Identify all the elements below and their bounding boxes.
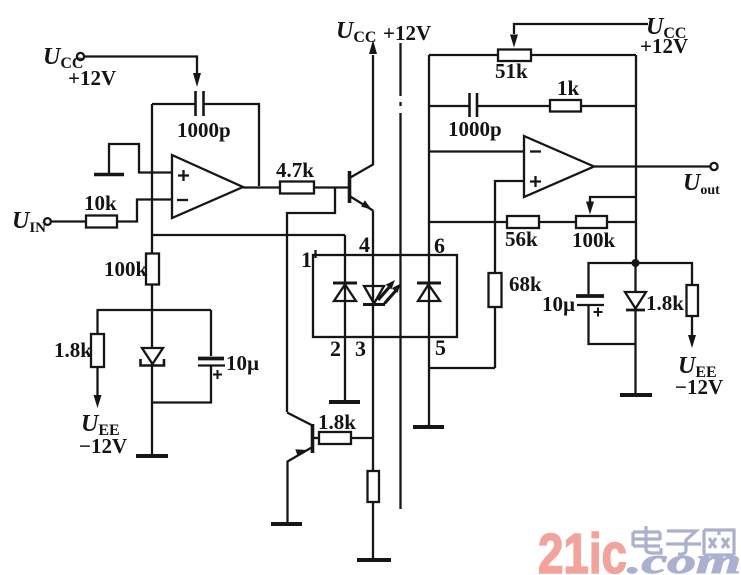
- wire right rail: [635, 55, 637, 263]
- RP1 wiper to Ucc: [514, 24, 648, 34]
- svg-text:2: 2: [330, 336, 341, 361]
- wire dot to C4 branch: [589, 263, 637, 294]
- wire RC network top row: [97, 309, 212, 311]
- arrowhead RP1 wiper: [510, 35, 518, 48]
- svg-text:10k: 10k: [84, 191, 117, 215]
- wire G1 to noninverting input: [109, 144, 172, 173]
- transistor Q1 base bar: [348, 171, 352, 203]
- wire R1 to inverting input: [117, 200, 172, 222]
- arrowhead Q2 emitter: [295, 449, 307, 456]
- wire C1 left plate to inverting column: [152, 103, 195, 105]
- wire RP1 to right rail: [531, 54, 636, 56]
- svg-text:100k: 100k: [104, 257, 148, 281]
- arrowhead down Uee right: [688, 335, 696, 348]
- svg-text:−12V: −12V: [675, 375, 723, 399]
- wire to R3: [96, 310, 98, 334]
- svg-text:4.7k: 4.7k: [276, 158, 314, 182]
- capacitor C4 10u: [576, 294, 604, 298]
- opto diode left triangle: [334, 285, 356, 302]
- wire R5 to right rail: [581, 105, 636, 107]
- svg-text:56k: 56k: [505, 227, 538, 251]
- wire feedback row left: [429, 105, 469, 107]
- plus mark C4: [594, 308, 603, 317]
- resistor R9 1.8k bottom: [319, 432, 351, 444]
- wire inverting row U2: [429, 150, 524, 152]
- svg-text:21ic: 21ic: [538, 522, 627, 575]
- transistor Q2 collector diagonal: [287, 413, 313, 426]
- svg-text:1000p: 1000p: [177, 118, 231, 142]
- svg-text:1.8k: 1.8k: [318, 410, 356, 434]
- svg-text:5: 5: [435, 335, 446, 360]
- wire diode column right: [634, 263, 636, 395]
- wire Ucc left to C1 node: [84, 57, 197, 77]
- pin 1 tick: [314, 250, 316, 258]
- resistor R1 10k: [86, 216, 117, 228]
- resistor R10: [368, 471, 380, 502]
- resistor R5 1k: [550, 100, 581, 112]
- wire emitter / opto LED column down to ground: [372, 211, 374, 561]
- svg-text:1k: 1k: [557, 76, 580, 100]
- opto diode right triangle: [418, 285, 440, 302]
- arrowhead down Uee left: [94, 395, 102, 408]
- op-amp U1 plus sign: [178, 170, 189, 181]
- ground G3 bar: [329, 400, 360, 404]
- wire zener column: [151, 310, 153, 456]
- ground G7 bar: [620, 393, 652, 397]
- svg-text:Uout: Uout: [683, 170, 720, 198]
- wire inverting node column x152: [151, 104, 153, 310]
- arrowhead up Ucc middle: [369, 40, 377, 54]
- wire opto left diode column to ground: [344, 235, 346, 402]
- svg-text:10µ: 10µ: [226, 351, 259, 375]
- capacitor C3 1000p: [468, 93, 471, 117]
- wire R4 to Q1 base: [314, 186, 348, 188]
- op-amp U2 plus sign: [530, 176, 541, 187]
- transistor Q1 emitter: [350, 196, 374, 211]
- wire C2 column: [210, 310, 212, 356]
- wire row 56k 100k: [429, 221, 636, 223]
- svg-text:100k: 100k: [572, 228, 616, 252]
- svg-text:3: 3: [355, 336, 366, 361]
- potentiometer RP2 100k: [576, 216, 607, 228]
- svg-text:UCC: UCC: [336, 18, 376, 46]
- op-amp U1 minus sign: [177, 199, 188, 201]
- resistor R7 56k: [507, 216, 539, 228]
- ground G1 bar: [94, 173, 124, 177]
- arrowhead down to C1 node: [193, 73, 201, 87]
- svg-text:UIN: UIN: [12, 208, 46, 236]
- resistor R3 1.8k: [91, 334, 104, 367]
- transistor Q2 base bar: [311, 424, 315, 453]
- resistor R6 68k: [489, 273, 502, 307]
- op-amp U2 minus sign: [530, 150, 541, 152]
- junction dot right rail: [632, 259, 640, 267]
- svg-text:68k: 68k: [509, 272, 542, 296]
- wire U2 output row: [594, 165, 710, 167]
- potentiometer RP1 51k: [498, 50, 531, 62]
- wire R9 to LED column: [351, 437, 373, 439]
- wire C4 bottom to diode column: [589, 305, 636, 344]
- arrowhead Q1 emitter: [361, 200, 371, 209]
- transistor Q1 collector to Ucc: [350, 55, 374, 178]
- wire R3 to Uee: [96, 367, 98, 398]
- wire U1 output to R4: [243, 186, 280, 188]
- resistor R4 4.7k: [280, 182, 314, 194]
- RP2 wiper to right rail: [590, 197, 636, 204]
- wire pin5 junction to 68k bottom: [429, 367, 496, 369]
- terminal Ucc left: [77, 53, 84, 60]
- wire Uin to R1: [51, 220, 86, 222]
- op-amp U1: [172, 155, 243, 218]
- transistor Q2 emitter: [288, 447, 313, 524]
- svg-text:4: 4: [359, 232, 370, 257]
- zener diode VD1: [142, 348, 163, 364]
- op-amp U2: [524, 136, 594, 197]
- ground G2 bar: [136, 454, 168, 458]
- terminal Uout: [710, 163, 717, 170]
- resistor R8 1.8k right: [687, 285, 699, 316]
- opto diode left bar: [333, 282, 357, 285]
- wire dot to R8: [636, 263, 692, 285]
- diode VD2: [625, 292, 646, 309]
- logo dianzi wang: [633, 526, 734, 555]
- opto LED bar: [363, 303, 385, 306]
- svg-text:−12V: −12V: [79, 434, 127, 458]
- capacitor C2 10u: [198, 357, 224, 361]
- wire noninverting drop through 68k: [495, 181, 524, 368]
- svg-text:1000p: 1000p: [448, 117, 502, 141]
- wire C3 to R5: [478, 105, 551, 107]
- wire right-section left rail pin6 pin5 column: [428, 55, 430, 427]
- svg-text:+12V: +12V: [383, 21, 431, 45]
- svg-text:6: 6: [434, 233, 445, 258]
- resistor R2 100k: [146, 254, 159, 285]
- terminal Uin: [44, 218, 51, 225]
- ground G4 bar: [271, 522, 302, 526]
- ground G6 bar: [357, 558, 391, 562]
- wire C1 right plate to output column: [204, 104, 259, 186]
- wire top row to RP1: [429, 54, 498, 56]
- wire drop to Q2 collector column: [287, 188, 335, 413]
- svg-text:1.8k: 1.8k: [646, 291, 684, 315]
- wire long node row to opto pin column: [152, 234, 345, 236]
- opto LED emission arrows: [378, 288, 389, 301]
- opto LED triangle: [364, 286, 384, 304]
- plus mark C2: [213, 370, 222, 379]
- svg-text:10µ: 10µ: [542, 292, 575, 316]
- wire R8 to Uee right: [691, 316, 693, 339]
- svg-text:1.8k: 1.8k: [54, 338, 92, 362]
- arrowhead RP2 wiper: [586, 202, 594, 215]
- optocoupler U3 box: [313, 255, 457, 337]
- svg-text:+12V: +12V: [68, 66, 116, 90]
- rail +12V middle: [399, 43, 401, 509]
- capacitor C1 1000p: [194, 91, 197, 116]
- opto diode right bar: [417, 282, 441, 285]
- svg-text:+12V: +12V: [640, 34, 688, 58]
- wire C2 bottom to zener column: [152, 366, 211, 403]
- svg-text:51k: 51k: [495, 59, 528, 83]
- svg-text:1: 1: [301, 247, 312, 272]
- wire R9 to Q2 base: [313, 437, 319, 439]
- ground G5 bar: [413, 425, 444, 429]
